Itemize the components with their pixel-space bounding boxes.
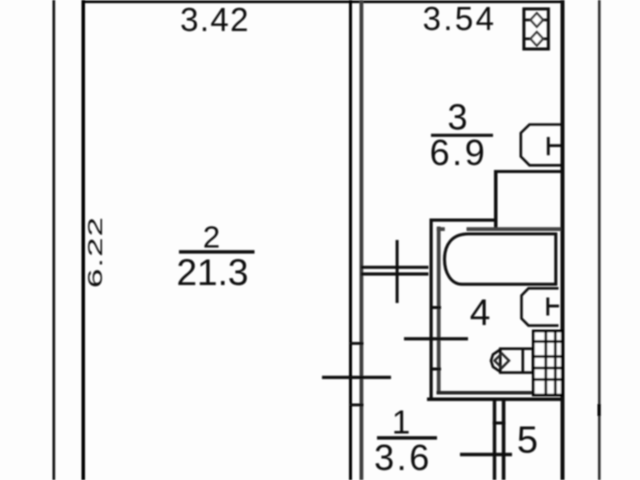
wall hall lower line bbox=[361, 272, 429, 275]
door jamb bathroom lower bbox=[430, 368, 442, 371]
wall bathroom outer bottom bbox=[427, 398, 565, 402]
room3 fraction bar bbox=[431, 134, 493, 137]
svg-text:6.9: 6.9 bbox=[430, 132, 488, 173]
wall kitchen bottom right bbox=[494, 170, 562, 173]
wall kitchen bottom left bbox=[430, 219, 498, 222]
door jamb room2 lower bbox=[349, 404, 364, 407]
washing machine bbox=[533, 331, 562, 395]
svg-text:1: 1 bbox=[392, 403, 410, 440]
room1 fraction bar bbox=[377, 436, 437, 439]
wall right outer bbox=[598, 0, 601, 480]
door leaf room2 bbox=[322, 376, 391, 379]
wall bathroom inner top bbox=[467, 227, 562, 231]
wall room5 line a bbox=[493, 399, 496, 480]
door leaf corridor bbox=[396, 240, 399, 303]
svg-text:21.3: 21.3 bbox=[176, 252, 248, 293]
door jamb room2 upper bbox=[349, 342, 364, 345]
stove bbox=[523, 9, 549, 49]
toilet bbox=[491, 349, 533, 373]
wall left outer dimension line bbox=[53, 0, 56, 480]
svg-text:2: 2 bbox=[203, 219, 220, 254]
door leaf room5 bbox=[460, 453, 512, 456]
wall hall upper line bbox=[361, 266, 429, 269]
svg-text:5: 5 bbox=[517, 419, 538, 461]
wall room5 line b bbox=[502, 399, 506, 480]
wall bathroom inner bottom bbox=[437, 391, 555, 395]
svg-text:6.22: 6.22 bbox=[84, 216, 107, 288]
room2 fraction bar bbox=[179, 250, 255, 253]
door leaf bathroom bbox=[404, 337, 468, 340]
wall middle line b bbox=[360, 0, 364, 480]
balcony tick right outer bbox=[598, 404, 601, 416]
svg-text:3.6: 3.6 bbox=[374, 437, 432, 478]
wall bathroom inner top left stub bbox=[437, 227, 445, 231]
door jamb bathroom upper bbox=[430, 306, 442, 309]
bathroom sink bbox=[522, 288, 560, 325]
wall right main bbox=[561, 0, 565, 480]
wall bathroom outer left bbox=[430, 219, 433, 401]
wall kitchen leg bbox=[494, 170, 498, 231]
wall middle line a bbox=[349, 0, 352, 480]
wall left main bbox=[82, 0, 86, 480]
svg-text:3.42: 3.42 bbox=[180, 1, 250, 38]
svg-text:3.54: 3.54 bbox=[423, 0, 497, 37]
svg-text:4: 4 bbox=[470, 292, 491, 333]
wall top bbox=[82, 1, 565, 4]
kitchen sink bbox=[521, 125, 561, 166]
bathtub bbox=[445, 234, 556, 284]
door jamb room5 bbox=[493, 422, 506, 425]
wall bathroom inner left bbox=[437, 227, 441, 395]
